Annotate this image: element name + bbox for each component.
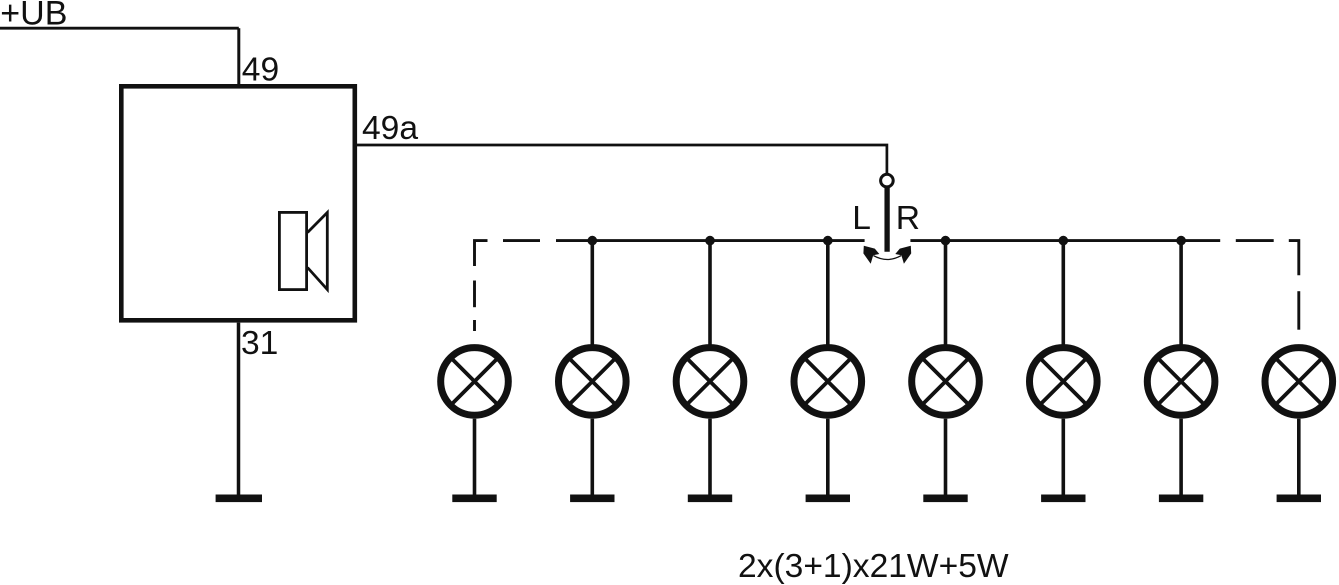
svg-text:R: R — [896, 200, 920, 237]
svg-text:L: L — [852, 200, 871, 237]
svg-text:2x(3+1)x21W+5W: 2x(3+1)x21W+5W — [738, 548, 1009, 585]
svg-text:31: 31 — [241, 325, 278, 362]
svg-text:49: 49 — [242, 52, 279, 89]
svg-text:49a: 49a — [362, 110, 418, 147]
